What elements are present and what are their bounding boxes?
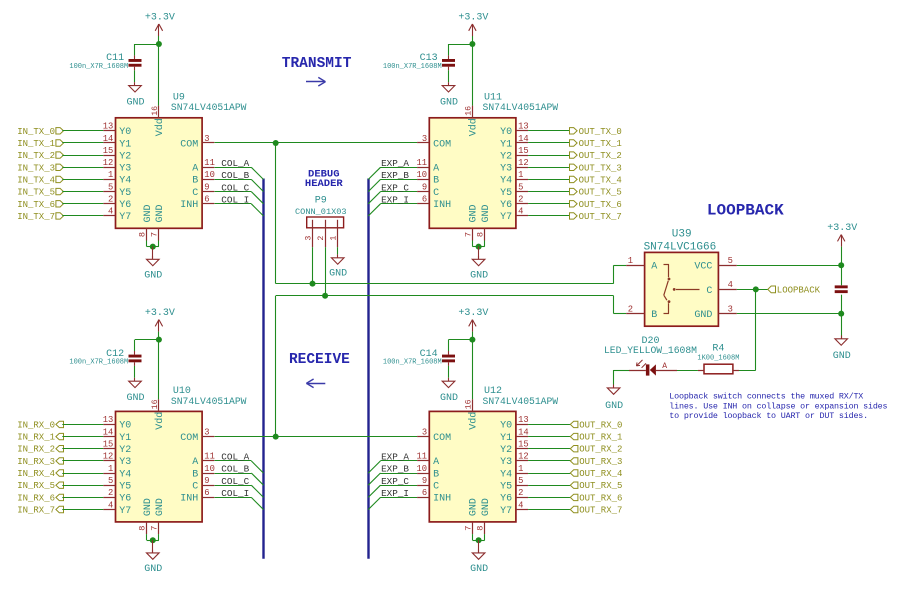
local label EXP_I at U11 — [381, 195, 409, 206]
ground symbol below C14 — [440, 378, 458, 404]
svg-text:INH: INH — [433, 200, 451, 211]
wire EXP_I at U11 — [368, 204, 417, 217]
local label EXP_C at U11 — [381, 182, 409, 193]
LED D20 LED_YELLOW_1608M — [604, 336, 697, 375]
global label OUT_TX_6 — [570, 200, 622, 210]
svg-text:B: B — [192, 469, 198, 480]
svg-text:IN_RX_5: IN_RX_5 — [17, 481, 55, 491]
svg-text:Y3: Y3 — [119, 164, 131, 175]
wire U11 pin to OUT_TX_7 — [528, 215, 569, 217]
svg-text:OUT_TX_2: OUT_TX_2 — [579, 151, 622, 161]
svg-text:C: C — [433, 188, 439, 199]
wire +3.3V to Vdd pin — [472, 340, 474, 400]
svg-text:12: 12 — [518, 452, 529, 462]
junction +3.3V loopback — [838, 262, 844, 268]
svg-text:OUT_TX_7: OUT_TX_7 — [579, 212, 622, 222]
svg-text:6: 6 — [204, 195, 209, 205]
svg-text:16: 16 — [151, 399, 160, 409]
svg-text:9: 9 — [204, 182, 209, 192]
svg-text:OUT_RX_7: OUT_RX_7 — [579, 506, 622, 516]
wire IN_RX_7 to U10 pin — [62, 509, 103, 511]
svg-text:COL_C: COL_C — [221, 182, 249, 193]
local label EXP_B at U12 — [381, 464, 409, 475]
svg-text:1: 1 — [330, 236, 339, 241]
svg-text:GND: GND — [440, 393, 458, 404]
ground symbol below U9 — [144, 247, 162, 282]
svg-text:IN_TX_2: IN_TX_2 — [17, 151, 55, 161]
svg-text:C: C — [706, 286, 712, 297]
wire IN_RX_6 to U10 pin — [62, 497, 103, 499]
wire IN_RX_3 to U10 pin — [62, 460, 103, 462]
svg-text:CONN_01X03: CONN_01X03 — [295, 207, 347, 217]
wire joining U10 GND pins — [147, 534, 159, 540]
capacitor C12 100n_X7R_1608M — [69, 349, 141, 367]
wire P9 pin 1 to ground — [337, 247, 339, 254]
svg-text:R4: R4 — [712, 344, 724, 355]
wire +3.3V to Vdd pin — [158, 44, 160, 106]
wire EXP_C at U11 — [368, 192, 417, 204]
svg-text:3: 3 — [204, 134, 209, 144]
ground symbol below C11 — [126, 82, 144, 108]
local label EXP_A at U11 — [381, 158, 409, 169]
svg-text:Y2: Y2 — [500, 445, 512, 456]
power symbol +3.3V at C11 — [145, 12, 175, 44]
svg-text:A: A — [662, 362, 667, 371]
svg-text:Y4: Y4 — [500, 469, 512, 480]
local label EXP_I at U12 — [381, 488, 409, 499]
local label COL_C at U10 — [221, 476, 249, 487]
global label OUT_RX_3 — [570, 457, 622, 467]
svg-text:7: 7 — [150, 232, 160, 237]
svg-text:1: 1 — [518, 170, 523, 180]
ground symbol below C13 — [440, 82, 458, 108]
U39 internal switch symbol — [664, 264, 700, 313]
wire capacitor C13 to ground — [448, 67, 450, 83]
U10 Vdd pin 16 — [151, 399, 166, 430]
wire RX COM U10 to U12 — [215, 436, 418, 438]
svg-text:+3.3V: +3.3V — [458, 308, 488, 319]
svg-text:A: A — [433, 164, 439, 175]
svg-text:Vdd: Vdd — [468, 412, 480, 430]
capacitor C14 100n_X7R_1608M — [383, 349, 455, 367]
svg-text:HEADER: HEADER — [305, 178, 344, 190]
local label COL_B at U9 — [221, 170, 249, 181]
svg-text:OUT_RX_5: OUT_RX_5 — [579, 481, 622, 491]
svg-text:Y7: Y7 — [119, 506, 131, 517]
svg-text:10: 10 — [204, 170, 215, 180]
section title RECEIVE — [289, 352, 350, 368]
svg-text:INH: INH — [180, 200, 198, 211]
svg-text:Y4: Y4 — [500, 176, 512, 187]
svg-text:8: 8 — [138, 526, 148, 531]
svg-text:+3.3V: +3.3V — [145, 308, 175, 319]
wire IN_TX_7 to U9 pin — [62, 215, 103, 217]
svg-text:IN_RX_7: IN_RX_7 — [17, 506, 55, 516]
svg-text:2: 2 — [108, 488, 113, 498]
svg-text:100n_X7R_1608M: 100n_X7R_1608M — [69, 63, 128, 71]
power symbol +3.3V at C13 — [458, 12, 488, 44]
wire U12 pin to OUT_RX_5 — [528, 485, 570, 487]
svg-text:14: 14 — [518, 427, 529, 437]
svg-text:C: C — [192, 188, 198, 199]
svg-text:OUT_RX_2: OUT_RX_2 — [579, 445, 622, 455]
global label IN_TX_2 — [17, 151, 63, 161]
global label IN_RX_5 — [17, 481, 63, 491]
global label IN_RX_3 — [17, 457, 63, 467]
svg-text:EXP_A: EXP_A — [381, 158, 409, 169]
svg-text:IN_TX_4: IN_TX_4 — [17, 175, 55, 185]
svg-text:10: 10 — [417, 170, 428, 180]
ground symbol below U11 — [470, 247, 488, 282]
svg-text:13: 13 — [518, 415, 529, 425]
capacitor C13 100n_X7R_1608M — [383, 53, 455, 71]
svg-text:SN74LV4051APW: SN74LV4051APW — [171, 102, 247, 113]
svg-text:GND: GND — [144, 270, 162, 281]
svg-text:+3.3V: +3.3V — [458, 12, 488, 23]
global label OUT_TX_0 — [570, 127, 622, 137]
wire R4 to LED D20 — [677, 370, 698, 372]
ground symbol below U10 — [144, 540, 162, 575]
svg-text:Y0: Y0 — [500, 421, 512, 432]
global label IN_RX_7 — [17, 506, 63, 516]
ground symbol below U12 — [470, 540, 488, 575]
svg-text:B: B — [433, 176, 439, 187]
wire U12 pin to OUT_RX_2 — [528, 448, 570, 450]
svg-text:GND: GND — [481, 498, 492, 516]
U9 Vdd pin 16 — [151, 106, 166, 137]
svg-text:to provide loopback to UART or: to provide loopback to UART or DUT sides… — [669, 411, 868, 421]
svg-text:11: 11 — [417, 158, 428, 168]
svg-text:GND: GND — [605, 401, 623, 412]
wire +3.3V to capacitor C12 — [135, 340, 159, 355]
wire TX COM down to loopback A — [276, 143, 627, 284]
junction at U11 GND pins — [476, 244, 482, 250]
svg-text:5: 5 — [518, 182, 523, 192]
svg-text:COM: COM — [433, 433, 451, 444]
multiplexer IC U10 SN74LV4051APW body — [116, 386, 247, 522]
svg-text:GND: GND — [144, 564, 162, 575]
wire COL_B at U9 — [215, 179, 264, 191]
svg-text:8: 8 — [476, 526, 486, 531]
section title LOOPBACK — [707, 202, 784, 220]
svg-text:COL_I: COL_I — [221, 195, 249, 206]
svg-text:Y1: Y1 — [500, 139, 512, 150]
wire RX COM up to loopback B — [276, 296, 627, 437]
svg-text:1: 1 — [628, 256, 633, 266]
text DEBUG HEADER — [305, 168, 344, 190]
U10 Y0-Y7 pins with numbers — [103, 415, 132, 517]
svg-text:GND: GND — [694, 310, 712, 321]
svg-text:15: 15 — [518, 146, 529, 156]
U39 pin 3 GND — [694, 304, 736, 321]
wire EXP_A at U11 — [368, 167, 417, 179]
wire capacitor C11 to ground — [134, 67, 136, 83]
wire COL_C at U9 — [215, 192, 264, 204]
svg-text:3: 3 — [422, 134, 427, 144]
svg-text:5: 5 — [518, 476, 523, 486]
junction P9 pin 2 — [322, 293, 328, 299]
svg-text:12: 12 — [103, 158, 114, 168]
svg-text:2: 2 — [317, 236, 326, 241]
svg-text:GND: GND — [329, 269, 347, 280]
svg-text:14: 14 — [518, 134, 529, 144]
junction TX COM — [273, 140, 279, 146]
wire +3.3V to Vdd pin — [472, 44, 474, 106]
svg-text:3: 3 — [204, 427, 209, 437]
svg-text:Y0: Y0 — [119, 421, 131, 432]
wire +3.3V to capacitor C13 — [449, 44, 473, 59]
global label IN_RX_4 — [17, 469, 63, 479]
svg-text:GND: GND — [143, 204, 154, 222]
svg-text:Y5: Y5 — [500, 188, 512, 199]
svg-text:12: 12 — [518, 158, 529, 168]
svg-text:Y6: Y6 — [119, 494, 131, 505]
global label IN_RX_1 — [17, 433, 63, 443]
U11 Vdd pin 16 — [465, 106, 480, 137]
svg-text:COM: COM — [180, 139, 198, 150]
wire +3.3V to Vdd pin — [158, 340, 160, 400]
svg-text:10: 10 — [204, 464, 215, 474]
global label OUT_RX_2 — [570, 445, 622, 455]
svg-text:13: 13 — [103, 415, 114, 425]
connector P9 CONN_01X03 body — [295, 196, 347, 228]
wire +3.3V to capacitor C14 — [449, 340, 473, 355]
svg-text:3: 3 — [728, 304, 733, 314]
wire U11 pin to OUT_TX_4 — [528, 179, 569, 181]
wire U12 pin to OUT_RX_7 — [528, 509, 570, 511]
svg-text:GND: GND — [155, 498, 166, 516]
U12 COM/A/B/C/INH pins with numbers — [417, 427, 452, 504]
transmit direction arrow — [306, 77, 326, 86]
svg-text:SN74LV4051APW: SN74LV4051APW — [171, 396, 247, 407]
global label IN_RX_0 — [17, 420, 63, 430]
global label OUT_TX_5 — [570, 188, 622, 198]
wire EXP_C at U12 — [368, 485, 417, 497]
svg-text:OUT_TX_1: OUT_TX_1 — [579, 139, 622, 149]
svg-text:A: A — [192, 457, 198, 468]
svg-text:EXP_I: EXP_I — [381, 195, 409, 206]
global label OUT_RX_1 — [570, 433, 622, 443]
bus COL (left vertical bus) — [262, 179, 264, 559]
U39 pin 4 C — [706, 280, 736, 297]
local label COL_A at U10 — [221, 452, 249, 463]
global label LOOPBACK — [768, 286, 821, 296]
local label COL_I at U10 — [221, 488, 249, 499]
svg-text:GND: GND — [469, 204, 480, 222]
power symbol +3.3V loopback — [827, 223, 857, 265]
wire U11 pin to OUT_TX_2 — [528, 155, 569, 157]
svg-text:Y3: Y3 — [500, 457, 512, 468]
svg-text:13: 13 — [103, 122, 114, 132]
wire IN_RX_0 to U10 pin — [62, 424, 103, 426]
svg-text:Y3: Y3 — [119, 457, 131, 468]
svg-text:COL_B: COL_B — [221, 170, 249, 181]
svg-text:COL_A: COL_A — [221, 452, 249, 463]
svg-text:13: 13 — [518, 122, 529, 132]
U11 Y0-Y7 pins with numbers — [500, 122, 529, 224]
svg-text:4: 4 — [108, 207, 113, 217]
svg-text:5: 5 — [728, 256, 733, 266]
global label OUT_RX_0 — [570, 420, 622, 430]
wire IN_RX_2 to U10 pin — [62, 448, 103, 450]
P9 pin 3 — [304, 220, 313, 247]
junction P9 pin 3 — [310, 281, 316, 287]
svg-text:2: 2 — [108, 195, 113, 205]
svg-text:Y0: Y0 — [119, 127, 131, 138]
U12 Y0-Y7 pins with numbers — [500, 415, 529, 517]
svg-text:TRANSMIT: TRANSMIT — [282, 56, 352, 72]
svg-text:4: 4 — [518, 207, 523, 217]
local label COL_B at U10 — [221, 464, 249, 475]
global label OUT_TX_4 — [570, 175, 622, 185]
wire TX COM U9 to U11 — [215, 142, 418, 144]
wire P9 pin 2 to RX COM line — [325, 247, 327, 296]
svg-text:Y1: Y1 — [500, 433, 512, 444]
global label OUT_TX_2 — [570, 151, 622, 161]
svg-text:IN_RX_3: IN_RX_3 — [17, 457, 55, 467]
junction ground rail loopback — [838, 311, 844, 317]
junction U39 C output — [753, 286, 759, 292]
svg-text:7: 7 — [463, 232, 473, 237]
junction at +3.3V C12 — [156, 337, 162, 343]
svg-text:Y6: Y6 — [119, 200, 131, 211]
svg-text:GND: GND — [126, 393, 144, 404]
svg-text:C: C — [192, 482, 198, 493]
svg-text:9: 9 — [422, 182, 427, 192]
power symbol +3.3V at C14 — [458, 308, 488, 340]
wire U11 pin to OUT_TX_5 — [528, 191, 569, 193]
wire U12 pin to OUT_RX_4 — [528, 473, 570, 475]
svg-text:9: 9 — [422, 476, 427, 486]
svg-text:Y2: Y2 — [119, 445, 131, 456]
svg-text:COL_C: COL_C — [221, 476, 249, 487]
global label IN_TX_4 — [17, 175, 63, 185]
svg-text:RECEIVE: RECEIVE — [289, 352, 350, 368]
svg-text:EXP_I: EXP_I — [381, 488, 409, 499]
svg-text:11: 11 — [204, 452, 215, 462]
svg-text:6: 6 — [422, 195, 427, 205]
global label OUT_TX_1 — [570, 139, 622, 149]
svg-text:COL_A: COL_A — [221, 158, 249, 169]
svg-text:SN74LV4051APW: SN74LV4051APW — [483, 396, 559, 407]
ground symbol at LED D20 — [605, 385, 623, 413]
svg-text:OUT_RX_0: OUT_RX_0 — [579, 420, 622, 430]
svg-text:16: 16 — [465, 399, 474, 409]
local label COL_C at U9 — [221, 182, 249, 193]
svg-text:100n_X7R_1608M: 100n_X7R_1608M — [69, 359, 128, 367]
svg-text:LOOPBACK: LOOPBACK — [777, 286, 821, 296]
svg-text:lines. Use INH on collapse or: lines. Use INH on collapse or expansion … — [669, 401, 887, 411]
svg-text:OUT_RX_4: OUT_RX_4 — [579, 469, 622, 479]
wire U39 VCC to +3.3V — [737, 265, 841, 267]
wire COL_I at U10 — [215, 497, 264, 509]
svg-text:Vdd: Vdd — [154, 118, 166, 136]
svg-text:Y7: Y7 — [500, 212, 512, 223]
svg-text:Vdd: Vdd — [154, 412, 166, 430]
local label COL_A at U9 — [221, 158, 249, 169]
wire U12 pin to OUT_RX_0 — [528, 424, 570, 426]
note text loopback explanation — [669, 392, 887, 421]
local label COL_I at U9 — [221, 195, 249, 206]
svg-text:IN_RX_6: IN_RX_6 — [17, 493, 55, 503]
svg-text:1K00_1608M: 1K00_1608M — [697, 354, 739, 362]
svg-text:2: 2 — [628, 304, 633, 314]
global label OUT_RX_6 — [570, 493, 622, 503]
svg-text:6: 6 — [422, 488, 427, 498]
svg-text:16: 16 — [151, 106, 160, 116]
wire COL_A at U10 — [215, 461, 264, 474]
svg-text:15: 15 — [103, 440, 114, 450]
wire EXP_A at U12 — [368, 461, 417, 474]
wire COL_A at U9 — [215, 167, 264, 179]
svg-text:VCC: VCC — [694, 262, 712, 273]
junction at U9 GND pins — [150, 244, 156, 250]
global label IN_TX_3 — [17, 163, 63, 173]
svg-text:15: 15 — [518, 440, 529, 450]
junction at +3.3V C11 — [156, 41, 162, 47]
global label IN_TX_7 — [17, 212, 63, 222]
svg-text:15: 15 — [103, 146, 114, 156]
wire IN_TX_0 to U9 pin — [62, 130, 103, 132]
wire EXP_B at U11 — [368, 179, 417, 191]
svg-text:IN_TX_1: IN_TX_1 — [17, 139, 55, 149]
ground symbol loopback rail — [833, 335, 851, 362]
svg-text:SN74LV4051APW: SN74LV4051APW — [483, 102, 559, 113]
U39 pin 1 A — [626, 256, 657, 273]
svg-text:12: 12 — [103, 452, 114, 462]
svg-text:IN_TX_6: IN_TX_6 — [17, 200, 55, 210]
svg-text:14: 14 — [103, 134, 114, 144]
global label OUT_RX_7 — [570, 506, 622, 516]
wire IN_RX_4 to U10 pin — [62, 473, 103, 475]
svg-text:EXP_C: EXP_C — [381, 476, 409, 487]
U9 Y0-Y7 pins with numbers — [103, 122, 132, 224]
wire IN_RX_5 to U10 pin — [62, 485, 103, 487]
wire IN_TX_2 to U9 pin — [62, 155, 103, 157]
svg-text:EXP_B: EXP_B — [381, 170, 409, 181]
svg-text:Y3: Y3 — [500, 164, 512, 175]
svg-text:4: 4 — [108, 500, 113, 510]
P9 pin 1 — [330, 220, 339, 247]
svg-text:8: 8 — [138, 232, 148, 237]
wire IN_TX_3 to U9 pin — [62, 167, 103, 169]
svg-text:OUT_RX_6: OUT_RX_6 — [579, 493, 622, 503]
svg-text:+3.3V: +3.3V — [827, 223, 857, 234]
wire COL_I at U9 — [215, 204, 264, 217]
wire loopback rail to ground symbol — [841, 314, 843, 339]
wire +3.3V to capacitor C11 — [135, 44, 159, 59]
wire capacitor C14 to ground — [448, 362, 450, 378]
U10 COM/A/B/C/INH pins with numbers — [180, 427, 215, 504]
wire U11 pin to OUT_TX_3 — [528, 167, 569, 169]
svg-text:A: A — [651, 262, 657, 273]
junction RX COM — [273, 434, 279, 440]
svg-text:1: 1 — [108, 170, 113, 180]
svg-text:B: B — [433, 469, 439, 480]
wire IN_TX_4 to U9 pin — [62, 179, 103, 181]
svg-text:14: 14 — [103, 427, 114, 437]
svg-text:11: 11 — [204, 158, 215, 168]
junction at +3.3V C13 — [469, 41, 475, 47]
svg-text:9: 9 — [204, 476, 209, 486]
svg-text:5: 5 — [108, 182, 113, 192]
wire U39 GND pin to ground rail — [737, 313, 841, 315]
analog switch U39 SN74LVC1G66 body — [644, 228, 719, 326]
svg-text:INH: INH — [180, 494, 198, 505]
svg-text:2: 2 — [518, 488, 523, 498]
svg-text:GND: GND — [833, 351, 851, 362]
svg-text:GND: GND — [143, 498, 154, 516]
